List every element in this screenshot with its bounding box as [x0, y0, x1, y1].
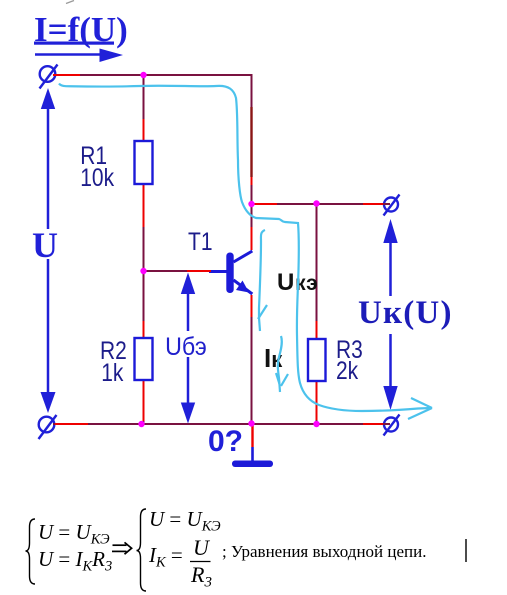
junction dot top rail x=143	[140, 72, 146, 78]
svg-text:IК =: IК =	[148, 543, 183, 571]
svg-text:U = UКЭ: U = UКЭ	[149, 507, 221, 535]
terminal top-left	[40, 65, 58, 89]
load line arrowhead	[408, 398, 432, 419]
svg-text:U = IКR3: U = IКR3	[38, 547, 112, 575]
wire emitter stub down to bottom rail	[251, 295, 253, 424]
junction dot bottom rail x=316	[313, 421, 319, 427]
resistor R1	[80, 141, 152, 191]
wire top rail	[53, 74, 253, 76]
arrow under I=f(U)	[35, 49, 123, 63]
equation right brace	[137, 509, 147, 591]
equation left brace	[26, 519, 36, 584]
svg-text:1k: 1k	[101, 358, 124, 386]
arrow Uk(U)	[383, 219, 397, 410]
implies arrow	[112, 542, 132, 554]
junction dot bottom rail x=251	[248, 420, 254, 426]
junction dot bottom rail x=141	[138, 421, 144, 427]
svg-text:; Уравнения выходной цепи.: ; Уравнения выходной цепи.	[222, 542, 427, 561]
junction dot base x=143	[140, 268, 146, 274]
terminal top-right	[384, 195, 400, 216]
wire collector stub	[251, 204, 253, 250]
wire mid rail y=204	[252, 203, 391, 205]
terminal bottom-left	[39, 415, 57, 439]
wire base y=271	[144, 270, 212, 272]
resistor R2	[100, 336, 153, 386]
wire bottom rail y=424	[53, 423, 390, 425]
resistor R3	[308, 335, 363, 384]
svg-text:U: U	[193, 535, 211, 560]
wire left branch vertical x=143	[143, 75, 145, 424]
transistor T1	[188, 227, 252, 294]
load line curve (cyan)	[59, 84, 431, 412]
wire right vertical x=252 from top rail to mid rail	[251, 75, 253, 204]
svg-text:0?: 0?	[208, 425, 243, 458]
ground	[232, 424, 273, 467]
svg-text:R3: R3	[190, 562, 212, 591]
text cursor	[465, 539, 467, 562]
svg-text:10k: 10k	[80, 163, 114, 191]
label I=f(U)	[34, 10, 128, 49]
junction dot mid rail R3	[313, 200, 319, 206]
svg-text:Uк(U): Uк(U)	[358, 295, 453, 331]
junction dot mid rail left	[248, 201, 254, 207]
svg-text:Uбэ: Uбэ	[165, 333, 207, 361]
svg-text:2k: 2k	[336, 356, 359, 384]
arrow U (left voltage arrow)	[41, 88, 56, 413]
svg-text:U: U	[32, 225, 58, 265]
current arrow (collector current, short)	[258, 230, 267, 331]
arrow Ube	[181, 273, 195, 424]
svg-text:U = UКЭ: U = UКЭ	[38, 520, 110, 548]
svg-text:T1: T1	[188, 227, 213, 255]
current arrow Ik	[276, 336, 288, 392]
equation right line2: Ik = U/R3	[148, 535, 212, 591]
label Ube	[165, 333, 207, 361]
wire R3 branch x=316.5	[316, 204, 318, 424]
terminal bottom-right	[384, 415, 400, 436]
